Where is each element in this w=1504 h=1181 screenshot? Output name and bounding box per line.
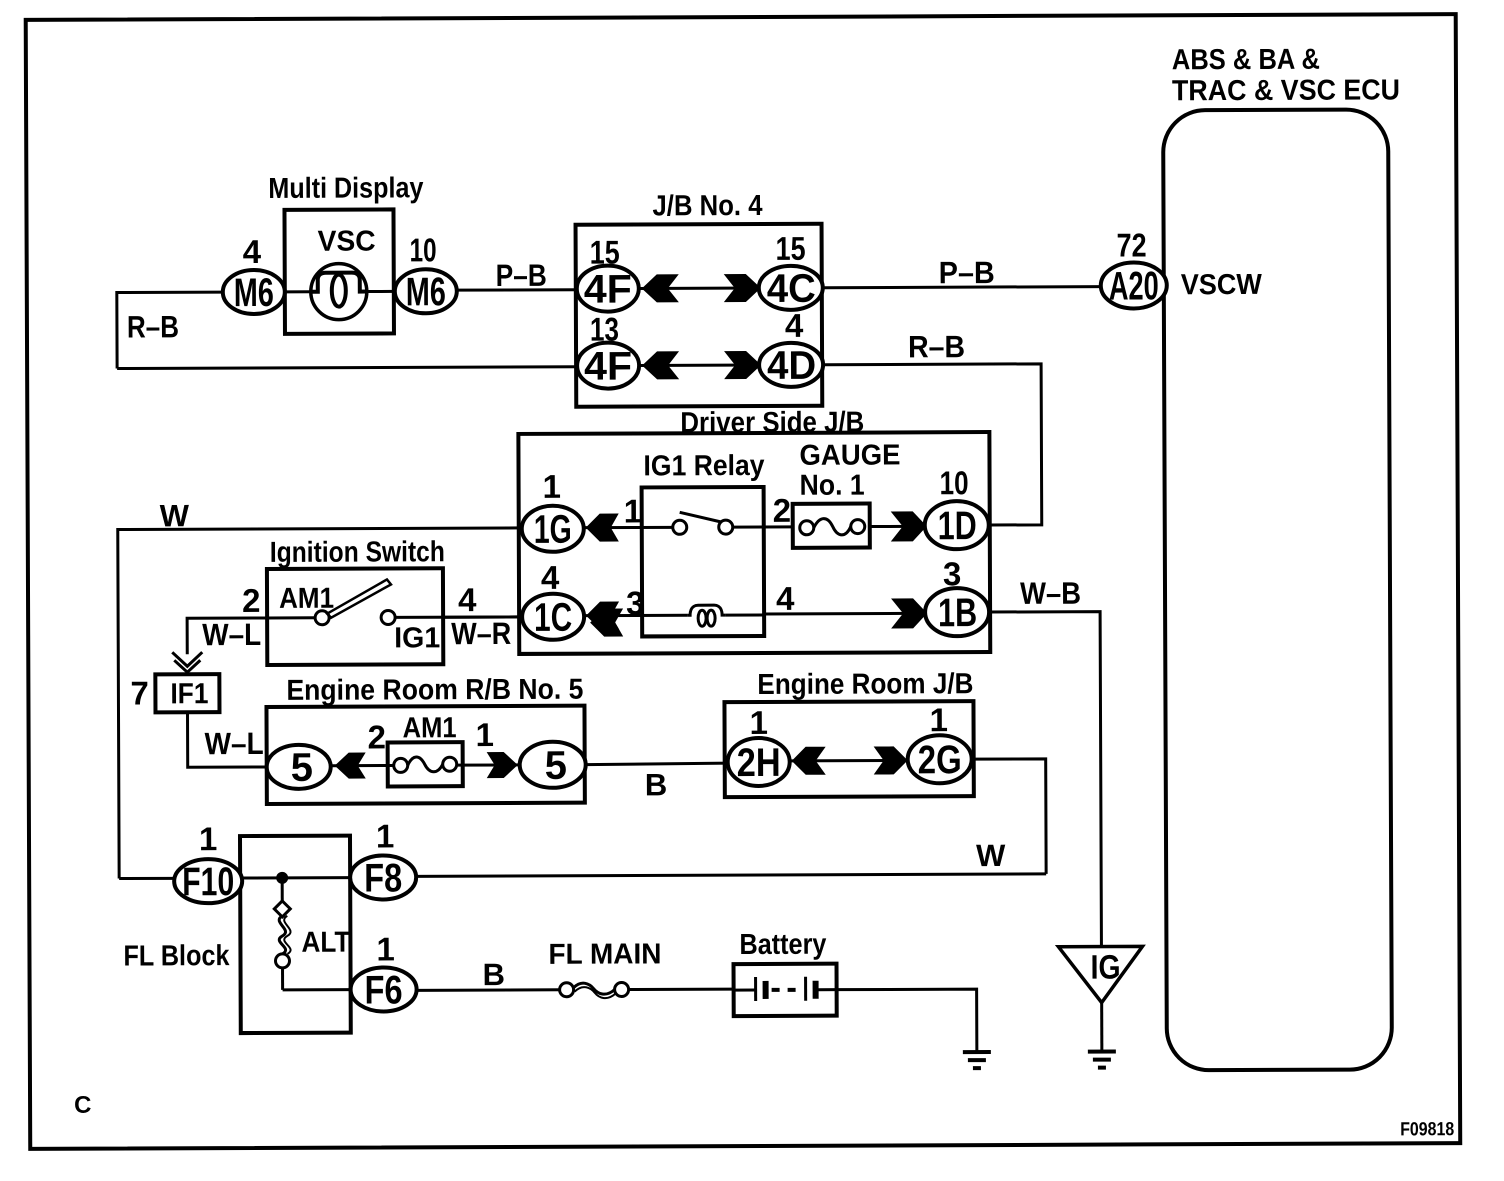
svg-text:72: 72 bbox=[1117, 226, 1147, 263]
svg-text:B: B bbox=[482, 957, 505, 992]
relay switch contacts bbox=[673, 512, 793, 534]
connector 4D pin 4 bbox=[759, 307, 823, 388]
wire B from F6 to FL MAIN bbox=[417, 988, 561, 992]
svg-text:IF1: IF1 bbox=[170, 678, 208, 710]
svg-text:W–L: W–L bbox=[202, 617, 261, 652]
connector F10 pin 1 bbox=[174, 820, 242, 904]
wire fuse to right 5 bbox=[457, 763, 520, 766]
wire W-L from AM1 down to IF1 bbox=[187, 618, 315, 655]
svg-text:A20: A20 bbox=[1109, 264, 1159, 308]
svg-text:1: 1 bbox=[749, 704, 768, 741]
connector 4C pin 15 bbox=[759, 230, 823, 311]
junction block Engine Room J/B bbox=[724, 668, 974, 797]
svg-text:2: 2 bbox=[368, 718, 387, 755]
arrow left row 2 bbox=[642, 351, 679, 379]
junction dot bbox=[276, 872, 288, 884]
wire relay row 2 coil bbox=[584, 614, 687, 617]
svg-text:P–B: P–B bbox=[496, 258, 547, 293]
wire inside J/B row 1 bbox=[640, 286, 759, 289]
relay IG1 Relay bbox=[641, 450, 765, 636]
wire inside Engine Room J/B bbox=[790, 759, 908, 762]
arrow right row 2 bbox=[724, 351, 761, 379]
ground battery bbox=[963, 1052, 991, 1068]
svg-text:Engine Room R/B No. 5: Engine Room R/B No. 5 bbox=[286, 674, 583, 707]
svg-text:J/B No. 4: J/B No. 4 bbox=[652, 190, 762, 222]
wire coil to 1B bbox=[764, 612, 927, 616]
connector 5 left bbox=[267, 745, 331, 789]
svg-text:AM1: AM1 bbox=[279, 583, 334, 615]
connector M6 pin 4 bbox=[223, 233, 285, 315]
connector 5 right bbox=[520, 742, 586, 788]
svg-text:Battery: Battery bbox=[739, 929, 826, 961]
svg-text:Multi Display: Multi Display bbox=[268, 172, 423, 205]
ground symbol IG triangle bbox=[1058, 946, 1142, 1051]
arrow left row 1 bbox=[642, 274, 679, 302]
battery Battery bbox=[733, 929, 836, 1016]
svg-text:2: 2 bbox=[242, 582, 261, 619]
fusible link ALT bbox=[274, 878, 351, 990]
svg-text:4F: 4F bbox=[584, 344, 632, 388]
svg-text:M6: M6 bbox=[406, 270, 446, 314]
svg-text:F09818: F09818 bbox=[1400, 1119, 1454, 1140]
svg-text:ABS & BA &: ABS & BA & bbox=[1172, 44, 1320, 77]
wire F10 to F8 bbox=[242, 876, 350, 879]
svg-text:1: 1 bbox=[476, 716, 495, 753]
wire R-B bottom row from vertical to 4F bbox=[117, 367, 577, 369]
wire W-L from IF1 to R/B 5 bbox=[187, 712, 266, 767]
ground IG bbox=[1088, 1052, 1116, 1068]
svg-text:2: 2 bbox=[773, 492, 792, 529]
arrow into 1B bbox=[891, 598, 927, 628]
connector 4F pin 15 bbox=[577, 233, 639, 311]
connector F8 pin 1 bbox=[350, 817, 416, 900]
lamp symbol VSC indicator bbox=[285, 263, 395, 319]
wire W from F8 to junction bbox=[416, 874, 1046, 877]
arrow into 1D bbox=[891, 511, 927, 541]
svg-text:4: 4 bbox=[785, 307, 804, 344]
svg-text:W–B: W–B bbox=[1020, 576, 1081, 611]
arrow into right 5 bbox=[487, 752, 518, 778]
svg-text:4: 4 bbox=[458, 581, 477, 618]
wire from left vertical to F10 bbox=[119, 877, 174, 880]
relay block Engine Room R/B No. 5 bbox=[266, 674, 585, 804]
svg-text:4: 4 bbox=[243, 233, 262, 270]
arrow into left 5 bbox=[335, 753, 366, 779]
svg-text:W–L: W–L bbox=[205, 726, 264, 761]
connector 1D pin 10 bbox=[925, 464, 989, 549]
svg-text:IG: IG bbox=[1090, 949, 1120, 987]
wire inside R/B No.5 bbox=[331, 764, 394, 767]
svg-text:15: 15 bbox=[776, 230, 806, 267]
fuse GAUGE No. 1 bbox=[792, 439, 900, 547]
junction block Driver Side J/B bbox=[518, 406, 990, 654]
svg-text:4: 4 bbox=[541, 559, 560, 596]
svg-text:2H: 2H bbox=[737, 741, 781, 785]
wire P-B from M6 to J/B No.4 bbox=[457, 288, 577, 291]
connector 1G pin 1 bbox=[522, 468, 584, 552]
svg-text:Ignition Switch: Ignition Switch bbox=[270, 536, 445, 569]
connector 2G pin 1 bbox=[907, 701, 971, 783]
svg-text:TRAC & VSC ECU: TRAC & VSC ECU bbox=[1172, 74, 1400, 107]
arrow into 2H bbox=[792, 747, 826, 775]
svg-text:1: 1 bbox=[199, 820, 218, 857]
wire FL MAIN to Battery bbox=[629, 988, 734, 991]
connector M6 pin 10 bbox=[395, 231, 457, 314]
wire W-B from 1B down to IG bbox=[989, 612, 1101, 947]
wire W-R from IG1 to 1C bbox=[395, 615, 522, 619]
ECU block ABS & BA & TRAC & VSC ECU bbox=[1163, 43, 1404, 1070]
wire relay row 1 bbox=[584, 526, 673, 529]
wire R-B from 4D to 1D bbox=[824, 364, 1042, 526]
svg-text:FL Block: FL Block bbox=[123, 940, 230, 972]
wire Battery to ground bbox=[837, 989, 977, 1053]
arrow into 1G bbox=[586, 514, 619, 542]
svg-text:W: W bbox=[160, 498, 190, 533]
wire P-B from M6 to left vertical bbox=[117, 292, 223, 368]
svg-text:FL MAIN: FL MAIN bbox=[548, 938, 661, 970]
svg-text:F6: F6 bbox=[365, 968, 403, 1012]
svg-text:R–B: R–B bbox=[127, 309, 179, 344]
svg-text:10: 10 bbox=[940, 464, 969, 501]
svg-text:7: 7 bbox=[130, 674, 149, 711]
svg-text:5: 5 bbox=[291, 746, 313, 790]
fuse AM1 bbox=[387, 712, 462, 786]
svg-text:4F: 4F bbox=[584, 267, 632, 311]
wire P-B from 4C to A20 bbox=[824, 287, 1102, 288]
svg-text:ALT: ALT bbox=[301, 927, 350, 959]
fusible link arrow chevrons into IF1 bbox=[172, 652, 202, 672]
svg-text:4C: 4C bbox=[767, 267, 816, 311]
wire fuse to 1D bbox=[870, 525, 927, 528]
fusible link IF1 pin 7 bbox=[130, 674, 219, 712]
svg-text:W–R: W–R bbox=[451, 616, 511, 651]
svg-text:1: 1 bbox=[376, 930, 395, 967]
svg-text:P–B: P–B bbox=[939, 255, 995, 290]
svg-text:VSC: VSC bbox=[318, 226, 376, 258]
svg-text:3: 3 bbox=[626, 584, 645, 621]
svg-text:1D: 1D bbox=[938, 504, 977, 548]
svg-text:W: W bbox=[976, 838, 1006, 873]
wire W from 1G to left vertical bbox=[118, 528, 523, 879]
svg-text:C: C bbox=[74, 1092, 91, 1119]
svg-text:1G: 1G bbox=[534, 508, 572, 552]
svg-text:2G: 2G bbox=[918, 738, 962, 782]
connector 1B pin 3 bbox=[925, 555, 989, 636]
svg-text:R–B: R–B bbox=[908, 329, 965, 364]
connector A20 pin 72 bbox=[1101, 226, 1167, 308]
svg-text:B: B bbox=[645, 767, 668, 802]
svg-text:1: 1 bbox=[543, 468, 562, 505]
svg-text:F10: F10 bbox=[182, 860, 234, 904]
svg-text:Engine Room J/B: Engine Room J/B bbox=[757, 668, 973, 701]
svg-text:1: 1 bbox=[929, 701, 948, 738]
svg-text:AM1: AM1 bbox=[402, 712, 456, 744]
svg-text:5: 5 bbox=[545, 744, 567, 788]
svg-text:VSCW: VSCW bbox=[1181, 269, 1263, 301]
fusible link block FL Block bbox=[123, 836, 351, 1034]
wire B from 5 to 2H bbox=[586, 763, 729, 765]
svg-text:4: 4 bbox=[776, 580, 795, 617]
connector 1C pin 4 bbox=[522, 559, 584, 640]
Multi Display component bbox=[268, 172, 424, 334]
arrow right row 1 bbox=[724, 274, 761, 302]
switch Ignition Switch bbox=[267, 536, 446, 665]
svg-text:M6: M6 bbox=[234, 271, 274, 315]
svg-text:1B: 1B bbox=[938, 591, 977, 635]
svg-text:4D: 4D bbox=[767, 344, 816, 388]
svg-text:F8: F8 bbox=[364, 856, 402, 900]
junction block J/B No. 4 bbox=[575, 190, 822, 407]
wire from 2G down to W wire bbox=[972, 759, 1046, 874]
svg-text:1: 1 bbox=[624, 492, 643, 529]
svg-text:IG1: IG1 bbox=[394, 622, 440, 654]
wire inside J/B row 2 bbox=[640, 363, 759, 366]
svg-text:IG1 Relay: IG1 Relay bbox=[643, 450, 764, 482]
connector F6 pin 1 bbox=[350, 930, 416, 1012]
fusible link FL MAIN bbox=[548, 938, 661, 998]
connector 4F pin 13 bbox=[577, 310, 639, 388]
svg-text:1C: 1C bbox=[534, 596, 572, 640]
svg-text:1: 1 bbox=[376, 817, 395, 854]
svg-text:10: 10 bbox=[410, 231, 437, 268]
connector 2H pin 1 bbox=[727, 704, 789, 786]
arrow into 1C bbox=[586, 602, 619, 630]
svg-text:No. 1: No. 1 bbox=[800, 470, 865, 502]
svg-text:GAUGE: GAUGE bbox=[799, 439, 900, 471]
arrow into 2G bbox=[874, 746, 908, 774]
relay coil bbox=[687, 605, 764, 626]
